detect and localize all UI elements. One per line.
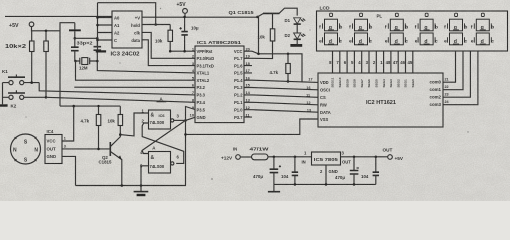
nand gate IC6 74LS00 (top) — [142, 108, 180, 129]
capacitor 33p (left) — [71, 38, 79, 61]
node dot A0 — [96, 16, 99, 19]
nand gate 74LS00 (bottom) — [140, 150, 180, 173]
wire data to MCU P3.1 — [142, 40, 195, 66]
node dot cap470 out — [353, 156, 356, 159]
node dot output 3 — [184, 119, 187, 122]
node dot ground symbol — [140, 184, 143, 187]
capacitor 10μ (reset) — [180, 17, 199, 52]
wire latch ground vertical — [185, 120, 187, 185]
wire crystal cap node — [75, 37, 98, 39]
node dot vss tap — [184, 133, 187, 136]
ground (24C02 address) — [96, 50, 106, 52]
wire P1.2 to HT1621 CS — [252, 95, 318, 97]
node dot hold link — [154, 23, 157, 26]
node +12V terminal — [221, 147, 252, 161]
wire +5V terminal to resistor tops — [32, 27, 61, 31]
node dot 4.7k bottom — [287, 80, 290, 83]
lcd digit 4 — [415, 13, 438, 45]
resistor 10k (Q1 base) — [252, 29, 275, 59]
mcu IC1 AT89C2051 — [195, 40, 244, 123]
lcd panel box — [317, 6, 508, 52]
wire com2 — [443, 51, 470, 97]
lcd digit 5 — [444, 13, 467, 45]
node dot base junction — [97, 148, 100, 151]
wire +5V rail (top left) — [5, 15, 112, 17]
node dot IC4 feed — [72, 105, 75, 108]
capacitor 470μ (output) — [335, 157, 359, 185]
wire ground rail (left) — [76, 185, 187, 187]
wire +5V vertical to VCC — [258, 17, 260, 54]
node dot cap2 — [96, 37, 99, 40]
node dot cap1 — [74, 37, 77, 40]
wire IC4 VCC drop — [62, 106, 74, 141]
node OUT terminal — [383, 148, 404, 161]
lcd driver IC2 HT1621 — [318, 73, 443, 127]
sensor IC4 (hall) — [45, 129, 66, 164]
wire output3 to P3.5 — [186, 107, 196, 121]
resistor 4.7k (Q2 base) — [81, 106, 101, 149]
pin numbers LCD 8..45 — [329, 60, 413, 65]
eeprom IC3 24C02 — [111, 11, 143, 58]
wire P1.4 to HT1621 VDD — [252, 80, 318, 82]
inductor 47/1W — [250, 146, 312, 160]
lcd digit 3 — [385, 13, 408, 45]
node dot collector — [119, 133, 122, 136]
wire hold pin — [142, 24, 170, 26]
wire pin5 to ground — [141, 166, 149, 186]
node +5V terminal (left) — [9, 22, 34, 29]
ground (switch common) — [0, 104, 8, 106]
node dot A1 — [96, 24, 99, 27]
wire collector node to gate pin1 — [120, 113, 148, 136]
capacitor 470μ (input) — [253, 157, 281, 185]
wire 7805 output — [341, 156, 388, 158]
lcd digit 1 — [319, 13, 342, 45]
node dot 10k bottom — [169, 50, 172, 53]
wire K1 to P3.3 — [39, 83, 195, 95]
pin numbers MCU left 1-10 — [190, 46, 195, 117]
node dot cap104 out — [375, 156, 378, 159]
wire IC4 OUT to Q2 base — [62, 148, 110, 150]
ground bar (crystal caps common) — [69, 23, 81, 39]
scan speckles — [25, 8, 468, 180]
resistor 10k (left, to K1) — [30, 31, 35, 83]
pin numbers MCU right 20-11 — [246, 46, 251, 117]
capacitor 104 (output) — [361, 157, 379, 185]
regulator IC5 7805 — [302, 151, 352, 185]
wire switches common — [2, 83, 4, 105]
lcd digit 2 — [349, 13, 372, 45]
ground (led) — [290, 44, 302, 47]
wire P1.3 to HT1621 OSCI — [252, 88, 318, 90]
wire cross A (pin4 to output3) — [142, 120, 186, 153]
wire output3 to GND pin — [186, 117, 196, 120]
wire +5V drop x60 — [60, 23, 75, 106]
wire VCC pin20 to +5V and VDD feed — [252, 51, 302, 82]
node dot psu gnd 1 — [294, 183, 297, 186]
wire P1.1 to HT1621 RW — [252, 102, 318, 105]
magnet rotor (4 pole) — [11, 134, 41, 164]
node junction dot resistor top — [45, 30, 48, 33]
label A (top gate) — [157, 96, 167, 101]
node dot 4.7k top — [287, 53, 290, 56]
wire VSS to ground net — [186, 119, 319, 134]
wire gate output 3 — [174, 119, 186, 121]
wire MCU right pin stubs — [244, 51, 252, 117]
node dot C — [96, 39, 99, 42]
node dot cap104 in — [294, 156, 297, 159]
switch K2 — [3, 90, 47, 108]
wires LCD segment pins to IC2 — [333, 51, 413, 73]
node dot +5V to rail — [183, 16, 186, 19]
node junction dot K2-resistor — [45, 96, 48, 99]
wire +V to +5V net — [142, 16, 258, 18]
resistor 10k (right, to K2) — [44, 31, 49, 98]
switch K1 — [2, 69, 39, 85]
crystal 12M — [74, 58, 98, 71]
wire XTAL1 (right node to pin4) — [97, 61, 195, 73]
wire com3 — [443, 51, 478, 105]
wire com1 — [443, 51, 463, 90]
node dot VCC junction — [257, 53, 260, 56]
wire P1.0 to HT1621 DATA — [252, 110, 318, 113]
pin numbers com right 21-24 — [445, 78, 450, 105]
resistor 4.7k (VDD line) — [270, 54, 291, 82]
pin numbers IC2 left — [306, 78, 312, 113]
resistor 10k (Q2 collector) — [108, 106, 123, 135]
node dot 4.7k top — [97, 105, 99, 107]
wire cross B (pin2 to output6) — [142, 123, 184, 163]
node dot psu gnd 2 — [325, 183, 328, 186]
node dot rail Q1 — [256, 16, 259, 19]
wire K2 to P3.4 — [46, 97, 195, 102]
ground (psu) — [268, 184, 280, 191]
wire 24C02 top link — [98, 3, 156, 25]
node dot cap470 in — [273, 156, 276, 159]
node junction dot K1-resistor — [30, 81, 33, 84]
lcd digit 6 — [471, 13, 494, 45]
wire bus to P3.2 — [74, 86, 195, 88]
wire com0 — [443, 51, 456, 82]
capacitor 33p (right) — [94, 38, 102, 61]
wire IC4 GND to rail — [62, 156, 76, 185]
led D1 — [285, 18, 306, 33]
node dot psu gnd 3 — [353, 183, 356, 186]
resistor 10k (reset/hold pulldown) — [155, 25, 173, 52]
wire 24C02 address pins common — [98, 3, 113, 51]
wire psu ground rail — [274, 183, 376, 185]
transistor Q2 C1815 — [99, 135, 122, 186]
wire XTAL2 (left node to pin5) — [76, 61, 196, 80]
node +5V terminal (MCU) — [177, 2, 188, 17]
wire +5V distribution (resistor tops) — [60, 105, 120, 107]
wire clk to MCU P3.0 — [142, 32, 195, 58]
pin labels SEG (vertical) — [331, 77, 415, 87]
ground (latch rail) — [134, 186, 149, 197]
node dot cap bottom — [183, 50, 186, 53]
transistor Q1 C1815 — [229, 8, 298, 29]
node dot emitter ground — [121, 184, 124, 187]
wire reset row to MCU pin1 — [170, 50, 195, 52]
capacitor 104 (input) — [281, 157, 298, 185]
led D2 — [285, 33, 306, 44]
